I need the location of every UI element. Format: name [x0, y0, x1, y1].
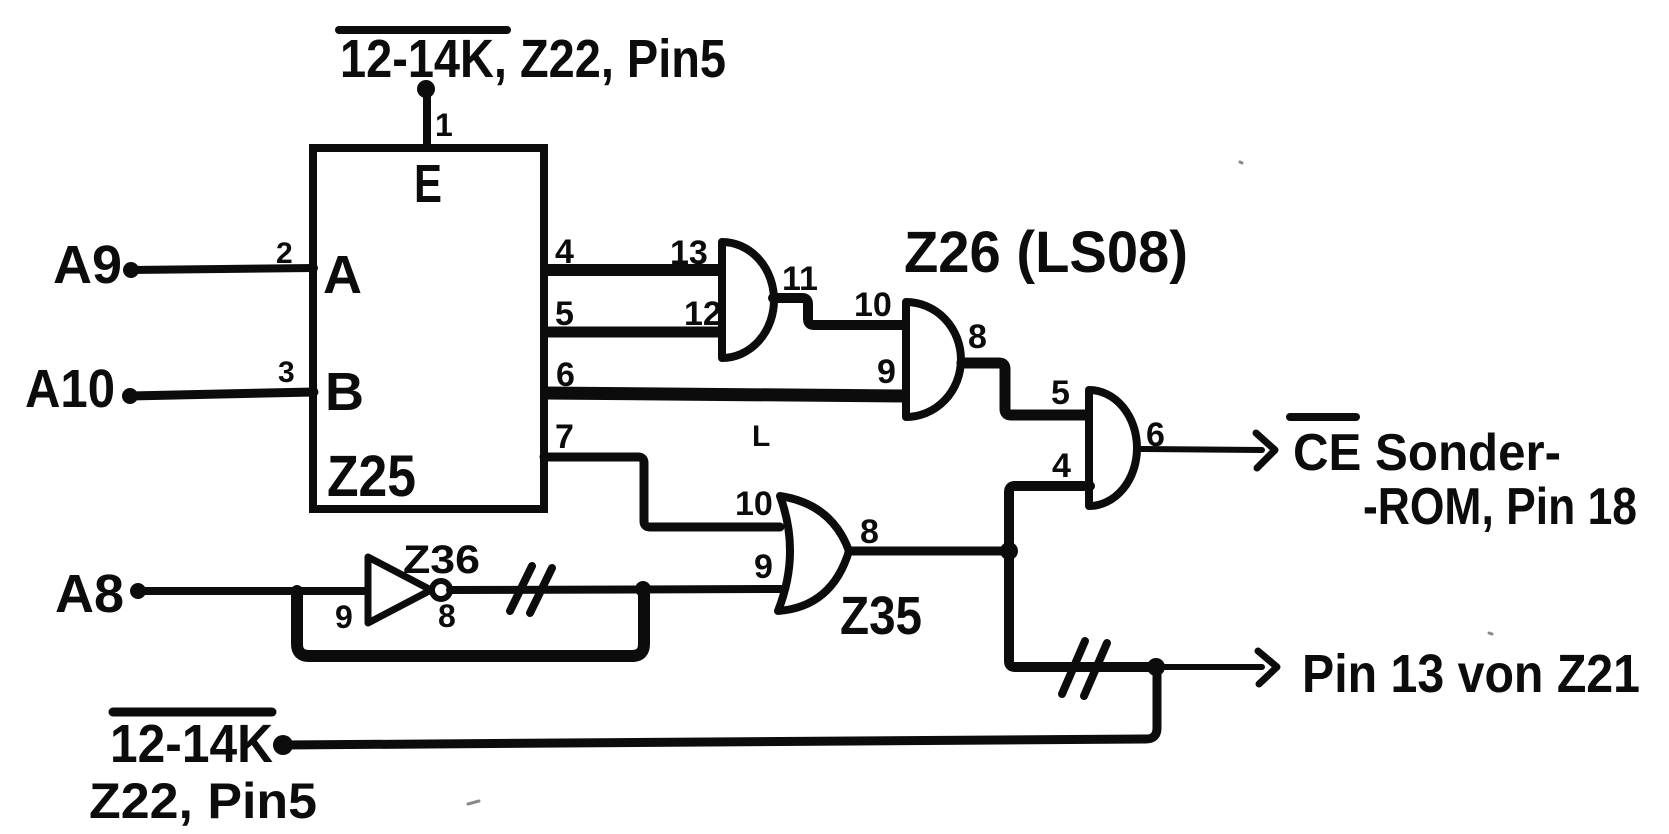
- svg-text:Z26 (LS08): Z26 (LS08): [904, 220, 1188, 285]
- node A10: [122, 388, 138, 404]
- wire: top net dot to Z25 pin 1: [423, 89, 431, 148]
- svg-text:4: 4: [1052, 447, 1071, 485]
- svg-text:12-14K: 12-14K: [110, 714, 273, 774]
- svg-text:2: 2: [276, 237, 293, 270]
- wire A9 to Z25 pin 2: [131, 268, 314, 270]
- bypass jumper wire around Z36: [297, 591, 644, 656]
- wire Z25 pin7 to Z35 pin10: [544, 457, 780, 527]
- svg-text:10: 10: [854, 286, 892, 324]
- wire bottom net to Pin13 junction: [283, 667, 1157, 745]
- svg-text:CE Sonder-: CE Sonder-: [1293, 424, 1561, 482]
- svg-text:3: 3: [278, 356, 295, 389]
- svg-text:5: 5: [1051, 374, 1070, 412]
- wire Z26a pin11 to Z26b pin10: [773, 298, 907, 325]
- wire Z36 output to Z35 pin9: [450, 589, 782, 590]
- svg-text:B: B: [325, 362, 364, 422]
- AND gate Z26a: [722, 242, 774, 358]
- arrow Z26c pin6 to CE Sonder-ROM: [1140, 433, 1275, 468]
- node: top net tap dot: [417, 80, 435, 98]
- node A9: [123, 262, 139, 278]
- svg-text:9: 9: [335, 599, 353, 635]
- net label 12-14K,Z22,Pin5 (top): [339, 29, 726, 89]
- svg-text:11: 11: [782, 260, 818, 298]
- svg-text:Z35: Z35: [840, 586, 922, 646]
- svg-text:Z36: Z36: [403, 538, 480, 582]
- svg-text:Z25: Z25: [327, 444, 416, 509]
- svg-text:E: E: [414, 154, 442, 214]
- svg-text:A8: A8: [55, 564, 124, 624]
- node: Z35 output junction: [1000, 542, 1018, 560]
- svg-text:12-14K, Z22, Pin5: 12-14K, Z22, Pin5: [340, 29, 726, 89]
- wire Z25 pin6 to Z26b pin9: [544, 393, 906, 396]
- svg-text:13: 13: [670, 234, 708, 272]
- slash marks on Pin13 wire: [1062, 641, 1107, 696]
- inverter Z36: [368, 557, 450, 623]
- IC Z25 box: [313, 148, 544, 509]
- svg-text:-ROM, Pin 18: -ROM, Pin 18: [1363, 478, 1637, 536]
- AND gate Z26b: [906, 302, 961, 417]
- wire Z25 pin4 to Z26a pin13: [544, 264, 722, 276]
- wire A10 to Z25 pin 3: [130, 392, 314, 396]
- wire A8 to Z36 input: [138, 587, 368, 595]
- svg-text:12: 12: [684, 295, 722, 333]
- wire Z26b pin8 to Z26c pin5: [962, 363, 1090, 415]
- svg-text:9: 9: [754, 548, 773, 586]
- svg-text:A: A: [323, 245, 362, 305]
- AND gate Z26c: [1089, 390, 1137, 506]
- svg-text:1: 1: [435, 107, 453, 143]
- svg-text:8: 8: [968, 318, 987, 356]
- wire Z25 pin5 to Z26a pin12: [544, 327, 722, 338]
- svg-text:8: 8: [860, 513, 879, 551]
- node: A8 bypass rejoin: [635, 581, 651, 597]
- svg-text:A10: A10: [25, 359, 115, 419]
- wire Z35 pin8 to junction: [849, 547, 1009, 556]
- svg-text:7: 7: [555, 418, 574, 456]
- wire junction down to Pin13 line: [1009, 551, 1156, 667]
- node: bottom net dot: [273, 735, 293, 755]
- svg-text:A9: A9: [53, 235, 122, 295]
- node A8: [130, 583, 146, 599]
- net label 12-14K (bottom): [110, 712, 273, 774]
- net label CE Sonder-ROM, Pin 18: [1290, 417, 1637, 536]
- slash marks on A8 wire: [510, 566, 552, 613]
- svg-text:10: 10: [735, 485, 773, 523]
- svg-text:L: L: [752, 420, 770, 453]
- svg-text:9: 9: [877, 353, 896, 391]
- svg-text:8: 8: [438, 598, 456, 634]
- arrow to Pin 13 von Z21: [1156, 651, 1277, 684]
- speck marks (paper noise): [468, 162, 1492, 804]
- svg-text:Pin 13 von Z21: Pin 13 von Z21: [1302, 644, 1640, 704]
- wire junction up to Z26c pin4: [1009, 486, 1090, 551]
- node: Pin13 junction: [1147, 658, 1165, 676]
- OR gate Z35: [778, 496, 849, 611]
- svg-text:Z22, Pin5: Z22, Pin5: [89, 773, 317, 829]
